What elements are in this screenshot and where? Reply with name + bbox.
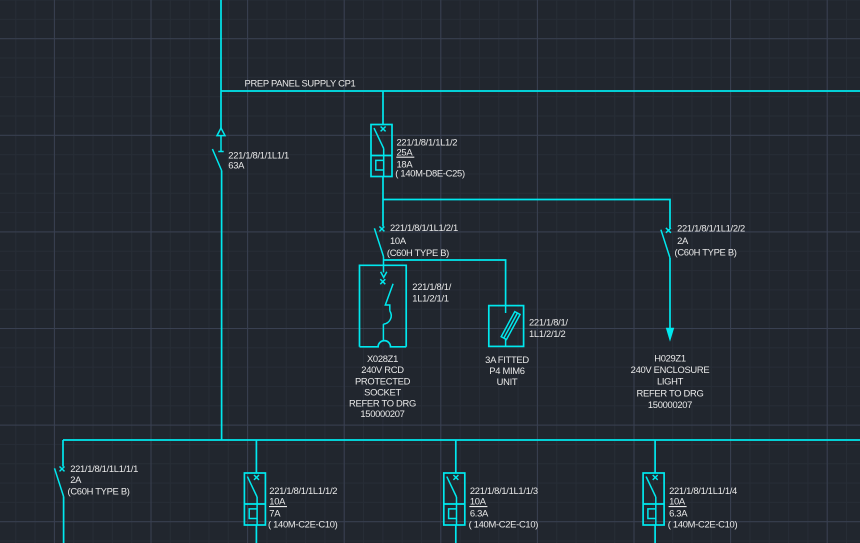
svg-text:7A: 7A [269,508,281,519]
svg-text:150000207: 150000207 [360,408,404,419]
label 221/1/8/1/ 1L1/2/1/1 [412,281,451,303]
wire: breaker 1L1/1/4 outgoing [654,525,656,543]
label 221/1/8/1/1L1/2/2 2A (C60H TYPE B) [675,222,746,257]
wire: drop to breaker U2 [382,91,384,125]
wire: drop to breaker 1L1/1/4 [654,440,656,473]
breaker 221/1/8/1/1L1/2/1 10A C60H [374,227,384,257]
svg-text:1L1/2/1/1: 1L1/2/1/1 [412,292,448,303]
label X028Z1 240V RCD PROTECTED SOCKET [349,353,416,419]
label H029Z1 240V ENCLOSURE LIGHT [631,353,710,410]
fuse 221/1/8/1/1L1/2/1/2 3A [489,306,524,347]
svg-text:221/1/8/1/1L1/1/1: 221/1/8/1/1L1/1/1 [70,463,138,474]
label 221/1/8/1/1L1/1/4 10A 6.3A [668,485,738,530]
svg-text:2A: 2A [70,474,82,485]
svg-text:REFER TO DRG: REFER TO DRG [349,398,416,409]
svg-text:10A: 10A [390,235,407,246]
bottom bus [63,439,860,441]
svg-text:REFER TO DRG: REFER TO DRG [637,387,704,398]
svg-text:150000207: 150000207 [648,399,692,410]
svg-text:UNIT: UNIT [497,376,518,387]
wire: drop to breaker 1L1/1/3 [455,440,457,473]
wire: incoming feeder vertical [220,0,222,128]
label 221/1/8/1/1L1/2/1 10A (C60H TYPE B) [387,222,458,258]
breaker 221/1/8/1/1L1/1/3 (140M-C2E-C10) [444,473,465,525]
label 221/1/8/1/1L1/1 63A [228,149,289,170]
top bus PREP PANEL SUPPLY CP1 [221,90,860,92]
svg-text:(C60H TYPE B): (C60H TYPE B) [387,247,449,258]
disconnect switch 221/1/8/1/1L1/1 63A [212,128,225,171]
svg-text:SOCKET: SOCKET [364,387,401,398]
svg-text:6.3A: 6.3A [470,508,489,519]
svg-text:( 140M-C2E-C10): ( 140M-C2E-C10) [268,519,338,530]
svg-text:LIGHT: LIGHT [657,376,684,387]
svg-text:25A: 25A [397,146,414,157]
svg-text:221/1/8/1/1L1/2/1: 221/1/8/1/1L1/2/1 [390,222,458,233]
svg-text:PREP PANEL SUPPLY CP1: PREP PANEL SUPPLY CP1 [245,77,356,88]
svg-text:6.3A: 6.3A [669,508,688,519]
label 221/1/8/1/1L1/1/3 10A 6.3A [469,485,539,530]
svg-text:2A: 2A [677,235,689,246]
label 221/1/8/1/1L1/2 25A 18A [395,136,465,178]
svg-text:240V ENCLOSURE: 240V ENCLOSURE [631,364,710,375]
svg-text:10A: 10A [470,496,487,507]
svg-text:3A FITTED: 3A FITTED [485,354,529,365]
label 221/1/8/1/1L1/1/2 10A 7A [268,485,338,530]
svg-text:H029Z1: H029Z1 [654,353,686,364]
wire: breaker 1L1/1/3 outgoing [455,525,457,543]
wire: drop to breaker 1L1/1/2 [255,440,257,473]
breaker 221/1/8/1/1L1/1/2 (140M-C2E-C10) [244,473,265,525]
wire: drop to breaker 1L1/1/1 [62,440,64,467]
wire: breaker 1L1/1/1 outgoing [63,497,65,543]
svg-text:221/1/8/1/1L1/1/4: 221/1/8/1/1L1/1/4 [669,485,737,496]
label 221/1/8/1/1L1/1/1 2A (C60H TYPE B) [68,463,139,497]
svg-text:221/1/8/1/1L1/1/3: 221/1/8/1/1L1/1/3 [470,485,538,496]
arrowhead [666,328,674,342]
svg-text:63A: 63A [228,160,245,171]
svg-text:(C60H TYPE B): (C60H TYPE B) [675,247,737,258]
svg-text:10A: 10A [669,496,686,507]
breaker 221/1/8/1/1L1/2/2 2A C60H [661,228,671,258]
svg-text:PROTECTED: PROTECTED [355,376,411,387]
svg-text:( 140M-C2E-C10): ( 140M-C2E-C10) [469,519,539,530]
svg-text:1L1/2/1/2: 1L1/2/1/2 [529,328,565,339]
wire: down to enclosure light arrow [669,258,671,330]
svg-text:( 140M-C2E-C10): ( 140M-C2E-C10) [668,519,738,530]
label 3A FITTED P4 MIM6 UNIT [485,354,529,387]
wire: breaker to RCD socket [383,257,385,273]
svg-text:( 140M-D8E-C25): ( 140M-D8E-C25) [395,168,465,179]
svg-text:10A: 10A [269,496,286,507]
breaker 221/1/8/1/1L1/1/1 2A C60H [55,467,65,497]
breaker 221/1/8/1/1L1/2 (140M-D8E-C25) [371,125,392,177]
svg-text:221/1/8/1/1L1/1/2: 221/1/8/1/1L1/1/2 [269,485,337,496]
wire: branch to fuse unit [384,260,506,306]
breaker 221/1/8/1/1L1/1/4 (140M-C2E-C10) [643,473,664,525]
RCD protected socket X028Z1 [360,265,407,347]
svg-text:X028Z1: X028Z1 [367,353,398,364]
wire: breaker 1L1/1/2 outgoing [255,525,257,543]
svg-text:240V RCD: 240V RCD [361,364,404,375]
svg-text:221/1/8/1/: 221/1/8/1/ [412,281,451,292]
svg-text:221/1/8/1/1L1/2/2: 221/1/8/1/1L1/2/2 [677,222,745,233]
label 221/1/8/1/ 1L1/2/1/2 [529,317,568,340]
svg-text:221/1/8/1/: 221/1/8/1/ [529,317,568,328]
wire: feeder to lower bus [221,171,223,441]
svg-text:(C60H TYPE B): (C60H TYPE B) [68,486,130,497]
wire: branch to enclosure light circuit [383,200,670,229]
wire: breaker U2 down to junction [382,177,384,227]
svg-text:P4 MIM6: P4 MIM6 [489,365,524,376]
arrow into RCD [381,272,387,278]
